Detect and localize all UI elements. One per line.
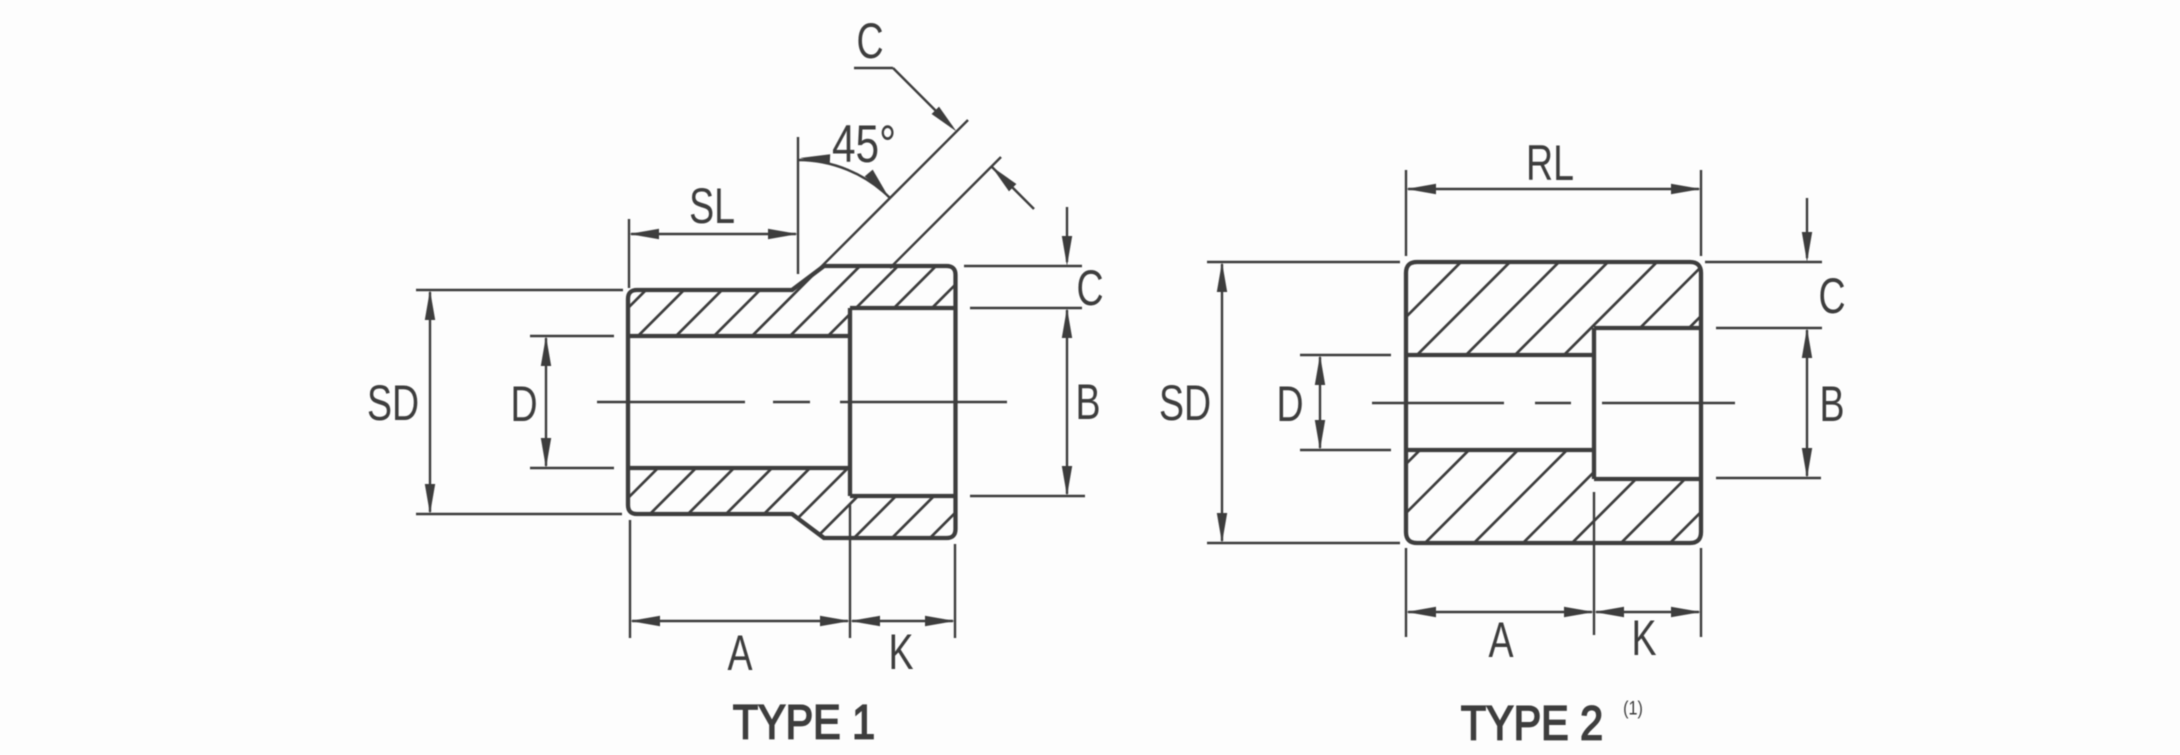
TYPE 1 dim K extension right bbox=[954, 544, 956, 638]
TYPE 1 dim SL extension left bbox=[628, 219, 630, 288]
TYPE 2 dim C extension bottom bbox=[1716, 327, 1822, 329]
TYPE 2 hatching upper section bbox=[1401, 0, 1706, 665]
TYPE 1 dim K line bbox=[850, 616, 955, 626]
TYPE 1 bore bottom edge bbox=[628, 466, 850, 470]
TYPE 2 bore top edge bbox=[1406, 353, 1594, 357]
svg-text:C: C bbox=[856, 14, 883, 69]
TYPE 2 socket shoulder vertical bbox=[1592, 328, 1596, 479]
TYPE 2 dim K extension middle bbox=[1593, 492, 1595, 635]
TYPE 1 dim SD extension top bbox=[416, 289, 623, 291]
TYPE 1 label SL bbox=[689, 179, 735, 234]
TYPE 2 dim A extension left bbox=[1405, 548, 1407, 637]
TYPE 1 dim SL extension right bbox=[797, 137, 799, 274]
svg-text:K: K bbox=[888, 625, 913, 680]
TYPE 2 title footnote bbox=[1623, 697, 1643, 719]
svg-text:TYPE 2: TYPE 2 bbox=[1461, 697, 1603, 751]
TYPE 2 dim C arrow bbox=[1802, 198, 1812, 262]
TYPE 1 chamfer extension line A bbox=[814, 120, 968, 274]
TYPE 1 bore top edge bbox=[628, 334, 850, 338]
TYPE 1 label A bbox=[727, 626, 752, 681]
svg-text:K: K bbox=[1631, 611, 1656, 666]
svg-text:45°: 45° bbox=[832, 116, 896, 175]
TYPE 1 label B bbox=[1075, 375, 1100, 430]
TYPE 2 dim SD extension bottom bbox=[1207, 542, 1400, 544]
TYPE 1 title bbox=[733, 696, 875, 750]
svg-text:SL: SL bbox=[689, 179, 735, 234]
TYPE 2 socket bottom edge bbox=[1594, 477, 1701, 481]
svg-text:RL: RL bbox=[1526, 136, 1574, 191]
TYPE 2 label D bbox=[1276, 377, 1303, 432]
TYPE 1 dim C arrow bbox=[1062, 207, 1072, 266]
TYPE 2 centerline bbox=[1372, 402, 1735, 404]
TYPE 2 dim RL line bbox=[1406, 184, 1701, 194]
TYPE 2 dim B line bbox=[1802, 328, 1812, 478]
TYPE 2 dim D extension top bbox=[1300, 354, 1391, 356]
TYPE 2 dim D extension bottom bbox=[1300, 449, 1391, 451]
TYPE 1 chamfer extension line B bbox=[890, 157, 1001, 268]
TYPE 1 socket bottom edge bbox=[850, 494, 956, 498]
TYPE 1 C gap arrow bbox=[992, 167, 1035, 210]
TYPE 2 label K bbox=[1631, 611, 1656, 666]
TYPE 1 socket top edge bbox=[850, 306, 956, 310]
svg-text:D: D bbox=[510, 377, 537, 432]
svg-text:C: C bbox=[1818, 269, 1845, 324]
TYPE 1 dim D line bbox=[541, 336, 551, 468]
TYPE 1 dim D extension top bbox=[530, 335, 614, 337]
TYPE 1 label 45deg bbox=[832, 116, 896, 175]
svg-text:B: B bbox=[1819, 377, 1844, 432]
TYPE 1 socket shoulder vertical bbox=[848, 308, 852, 496]
TYPE 2 title bbox=[1461, 697, 1603, 751]
TYPE 2 dim SD line bbox=[1217, 262, 1227, 543]
TYPE 2 dim K line bbox=[1594, 607, 1701, 617]
TYPE 2 dim C extension top bbox=[1705, 261, 1822, 263]
TYPE 1 label SD bbox=[367, 376, 419, 431]
TYPE 1 C leader bbox=[854, 68, 957, 132]
TYPE 1 dim B line bbox=[1062, 308, 1072, 496]
svg-text:C: C bbox=[1076, 261, 1103, 316]
TYPE 2 label C bbox=[1818, 269, 1845, 324]
svg-text:SD: SD bbox=[1159, 376, 1211, 431]
svg-text:A: A bbox=[1488, 613, 1513, 668]
TYPE 1 label C right bbox=[1076, 261, 1103, 316]
TYPE 1 dim A extension left bbox=[629, 520, 631, 638]
TYPE 1 dim B extension bottom bbox=[970, 495, 1085, 497]
svg-text:B: B bbox=[1075, 375, 1100, 430]
TYPE 2 label SD bbox=[1159, 376, 1211, 431]
TYPE 1 body outline bbox=[628, 266, 956, 538]
TYPE 2 dim SD extension top bbox=[1207, 261, 1400, 263]
TYPE 2 dim B extension bottom bbox=[1716, 477, 1821, 479]
TYPE 1 hatching lower section bbox=[623, 128, 961, 755]
TYPE 2 dim K extension right bbox=[1700, 548, 1702, 637]
TYPE 2 dim RL extension left bbox=[1405, 170, 1407, 256]
TYPE 1 label D bbox=[510, 377, 537, 432]
TYPE 2 hatching lower section bbox=[1401, 115, 1706, 755]
svg-text:SD: SD bbox=[367, 376, 419, 431]
TYPE 2 label RL bbox=[1526, 136, 1574, 191]
TYPE 1 dim A line bbox=[630, 616, 850, 626]
svg-text:TYPE 1: TYPE 1 bbox=[733, 696, 875, 750]
TYPE 1 45deg arc bbox=[798, 154, 890, 198]
TYPE 2 body outline bbox=[1406, 262, 1701, 543]
TYPE 2 label A bbox=[1488, 613, 1513, 668]
TYPE 1 centerline bbox=[597, 401, 1007, 403]
svg-text:D: D bbox=[1276, 377, 1303, 432]
TYPE 1 dim C extension bottom bbox=[970, 307, 1082, 309]
TYPE 2 dim RL extension right bbox=[1700, 170, 1702, 256]
TYPE 1 hatching upper section bbox=[623, 0, 961, 655]
TYPE 2 dim D line bbox=[1315, 355, 1325, 450]
TYPE 1 dim SD extension bottom bbox=[416, 513, 622, 515]
TYPE 2 bore bottom edge bbox=[1406, 448, 1594, 452]
TYPE 1 label C top bbox=[856, 14, 883, 69]
TYPE 1 dim SL line bbox=[629, 229, 798, 239]
TYPE 1 dim C extension top bbox=[964, 265, 1082, 267]
TYPE 1 dim K extension middle bbox=[849, 505, 851, 638]
svg-text:(1): (1) bbox=[1623, 697, 1643, 719]
TYPE 2 label B bbox=[1819, 377, 1844, 432]
TYPE 1 label K bbox=[888, 625, 913, 680]
TYPE 2 dim A line bbox=[1406, 607, 1594, 617]
TYPE 1 dim SD line bbox=[425, 290, 435, 514]
TYPE 2 socket top edge bbox=[1594, 326, 1701, 330]
svg-text:A: A bbox=[727, 626, 752, 681]
TYPE 1 dim D extension bottom bbox=[530, 467, 614, 469]
